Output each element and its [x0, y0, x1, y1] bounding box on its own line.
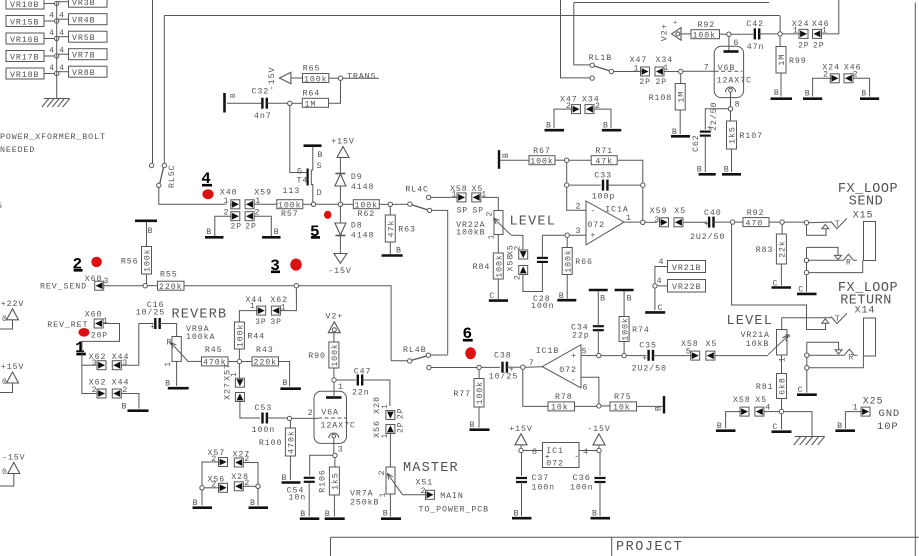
resistor R71	[591, 147, 617, 166]
label X58 p4	[733, 396, 751, 405]
wire X56.2 stub	[204, 487, 218, 489]
junction node V6B plate	[727, 32, 731, 36]
wire junction to ground	[257, 489, 259, 506]
wire R64 to TRANS node	[329, 80, 341, 103]
wire X44.1 to R44	[239, 311, 256, 322]
svg-text:+: +	[545, 453, 551, 462]
svg-text:4: 4	[49, 29, 55, 38]
junction node R77	[477, 365, 481, 369]
resistor R75	[610, 393, 637, 413]
wire node to R62	[343, 203, 353, 205]
wire C38 junction to R78	[523, 369, 548, 406]
svg-text:IC1B: IC1B	[536, 347, 560, 356]
svg-text:3P: 3P	[270, 318, 281, 327]
op-amp IC1A	[576, 201, 632, 245]
wire X5.5 to wiper	[715, 355, 768, 357]
svg-text:REVERB: REVERB	[172, 308, 228, 323]
svg-text:NEEDED: NEEDED	[0, 146, 35, 155]
svg-text:REV_SEND: REV_SEND	[40, 282, 87, 291]
svg-text:C: C	[658, 304, 664, 313]
wire node to RL4B riser	[299, 286, 392, 361]
wire cathode to R107	[730, 111, 732, 121]
svg-text:C: C	[772, 423, 778, 432]
wire VR21A top pin	[781, 318, 783, 330]
wire VR22A pin1 to R84	[497, 235, 499, 254]
wire VR21B pin4	[655, 258, 668, 284]
svg-text:3P: 3P	[255, 318, 266, 327]
svg-text:1: 1	[452, 191, 458, 200]
wire top to RL1B lower	[561, 0, 591, 78]
wire mix node to X62.1	[281, 288, 297, 311]
connector X5 pin3	[674, 207, 686, 227]
junction node R44/R45	[237, 359, 241, 363]
svg-text:VR4B: VR4B	[72, 17, 96, 26]
resistor R90	[308, 342, 340, 378]
ic IC1 power box	[543, 443, 581, 469]
wire junction to R55	[147, 285, 157, 287]
svg-text:10/25: 10/25	[136, 307, 165, 317]
connector X58 pin2	[507, 254, 528, 280]
svg-text:RL4B: RL4B	[403, 346, 427, 355]
connector X44 pin2	[112, 386, 128, 398]
svg-text:2P: 2P	[656, 78, 667, 87]
label 2P X28.1	[397, 408, 406, 419]
svg-text:RL5C: RL5C	[168, 164, 177, 188]
ground B C34	[589, 290, 608, 304]
wire title block divider	[611, 537, 613, 556]
svg-text:B: B	[206, 228, 212, 237]
capacitor C62 polarized	[692, 102, 719, 152]
wire gndbar to C32	[227, 102, 262, 104]
svg-text:V2+: V2+	[325, 313, 343, 322]
svg-text:100p: 100p	[592, 192, 616, 201]
svg-text:2P: 2P	[813, 42, 824, 51]
svg-text:100k: 100k	[278, 200, 302, 210]
svg-text:X58: X58	[733, 396, 751, 405]
svg-text:C: C	[798, 386, 804, 395]
svg-text:0: 0	[2, 315, 8, 324]
svg-text:-15V: -15V	[587, 425, 611, 434]
wire VR16B to junction	[44, 38, 57, 40]
label 10P	[877, 421, 899, 433]
jack tip contact T X14	[831, 313, 847, 324]
svg-text:4: 4	[583, 448, 589, 457]
ground B VR7A	[381, 510, 401, 519]
ground B X28 cluster	[249, 499, 269, 508]
box VR4B	[69, 14, 108, 26]
svg-text:+: +	[150, 323, 156, 332]
svg-text:B: B	[325, 510, 331, 519]
label X57 b	[208, 449, 226, 458]
wire title block top line	[331, 536, 919, 538]
svg-text:R55: R55	[160, 271, 178, 280]
ground C X14	[797, 386, 817, 395]
svg-text:X58: X58	[507, 254, 516, 272]
svg-text:R83: R83	[756, 246, 774, 255]
diode D8	[335, 221, 375, 240]
connector X56 pin2	[211, 481, 227, 493]
svg-text:B: B	[559, 292, 565, 301]
annotation red dot 2	[91, 257, 102, 267]
svg-text:6: 6	[583, 383, 589, 392]
svg-text:-15V: -15V	[2, 454, 26, 463]
wire plus node to IC1A	[569, 234, 586, 236]
label 2P X56.1	[397, 422, 406, 433]
svg-text:8: 8	[735, 101, 741, 110]
power +15V IC1	[509, 425, 533, 445]
resistor R74	[619, 290, 650, 353]
svg-text:12AX7C: 12AX7C	[717, 76, 752, 85]
svg-text:R100: R100	[259, 439, 283, 448]
wire gndbar to R67	[500, 159, 529, 161]
svg-text:-: -	[590, 207, 596, 216]
svg-text:B: B	[837, 422, 843, 431]
svg-text:4: 4	[49, 0, 55, 3]
wire X14 tip wire	[782, 317, 831, 319]
wire sheet border top bus	[164, 15, 780, 17]
wire X34.2 to ground	[594, 109, 611, 128]
svg-text:R92: R92	[747, 209, 765, 218]
label 2P X40	[231, 223, 242, 232]
svg-text:3: 3	[654, 216, 660, 225]
annotation red dot 3	[290, 259, 301, 271]
ground earth X5.4	[794, 437, 825, 446]
svg-text:RL1B: RL1B	[589, 54, 613, 63]
power -15V D8	[328, 254, 352, 277]
svg-text:R44: R44	[247, 333, 265, 342]
svg-text:X27: X27	[223, 382, 233, 400]
label X28 b	[231, 473, 249, 482]
wire V6A plate pin1	[334, 380, 344, 398]
label REV_RET	[47, 321, 88, 330]
power V2+ at R90	[325, 313, 343, 333]
svg-text:22p: 22p	[572, 332, 590, 341]
wire X5.3 to C40	[683, 221, 707, 223]
pin label 4 right row 5	[59, 64, 65, 73]
svg-text:+: +	[642, 355, 648, 364]
wire node to D8	[339, 207, 341, 224]
svg-text:1: 1	[381, 403, 390, 409]
svg-text:470k: 470k	[287, 430, 297, 454]
wire junction to VR4B	[57, 18, 69, 20]
svg-text:+15V: +15V	[1, 363, 25, 372]
capacitor C36	[570, 473, 606, 493]
wire junction to C38	[481, 366, 500, 368]
wire out to X59.3	[645, 221, 657, 223]
svg-text:C47: C47	[354, 368, 372, 377]
svg-text:B: B	[717, 422, 723, 431]
svg-text:R92: R92	[698, 21, 716, 30]
annotation red dot 6	[465, 347, 476, 359]
wire V2+ to R92	[681, 33, 691, 35]
svg-text:100n: 100n	[531, 302, 555, 311]
wire junction to -15V	[598, 445, 600, 448]
resistor R64	[302, 90, 328, 110]
wire VR9A to ground	[176, 361, 178, 386]
ground B C37	[512, 510, 532, 519]
svg-text:X14: X14	[855, 306, 876, 317]
svg-text:B: B	[514, 510, 520, 519]
svg-text:-15V: -15V	[328, 267, 352, 276]
svg-text:VR7B: VR7B	[72, 52, 96, 61]
box VR16B	[6, 33, 44, 45]
svg-text:X15: X15	[853, 211, 874, 222]
wire X15 ring wire	[809, 259, 844, 261]
label 2P X34.1	[656, 78, 667, 87]
wire +15V to junction	[520, 445, 522, 449]
wire X14 bypass from C40 node	[732, 224, 826, 329]
junction node V6B cathode	[728, 101, 740, 111]
label 20P	[91, 332, 108, 341]
wire V6B pin6	[729, 36, 739, 50]
svg-text:B: B	[193, 499, 199, 508]
connector X57 pin1	[223, 363, 245, 387]
svg-text:100k: 100k	[236, 324, 246, 348]
svg-text:1: 1	[230, 371, 239, 377]
junction node TRANS	[338, 76, 342, 80]
wire R92 to junction	[720, 33, 727, 35]
svg-text:B: B	[805, 89, 811, 98]
svg-text:B: B	[282, 474, 288, 483]
jack box X15	[864, 222, 876, 261]
label X44 row2	[112, 378, 130, 387]
wire junction up to bus	[779, 16, 781, 32]
junction node X15 tip	[804, 221, 808, 225]
svg-text:1M: 1M	[677, 91, 686, 103]
capacitor C32	[252, 87, 272, 121]
wire tip to T contact	[809, 221, 831, 224]
svg-text:100k: 100k	[693, 31, 717, 41]
wire C42 to junction	[759, 33, 778, 35]
svg-text:1: 1	[779, 356, 788, 362]
ground B T4 source	[304, 146, 324, 160]
wire C28 node to IC1A plus	[542, 234, 565, 236]
svg-text:2U2/50: 2U2/50	[632, 364, 667, 374]
wire C34 down	[597, 330, 599, 353]
svg-text:100k: 100k	[620, 317, 630, 341]
label MAIN	[440, 492, 464, 501]
power -15V IC1	[587, 425, 611, 445]
svg-text:VR8B: VR8B	[72, 69, 96, 78]
svg-text:B: B	[230, 93, 238, 98]
wire junction to R71	[569, 159, 591, 161]
connector X46 pin2	[844, 63, 862, 83]
svg-text:+15V: +15V	[509, 425, 533, 434]
connector X47 pin1	[630, 56, 650, 76]
wire VR7A to ground	[389, 494, 391, 517]
wire D8 to -15V	[339, 236, 341, 254]
svg-text:X25: X25	[863, 397, 884, 408]
title PROJECT	[616, 540, 683, 555]
svg-text:VR10B: VR10B	[10, 1, 39, 10]
junction node IC1 pin8	[519, 448, 523, 452]
svg-text:4: 4	[59, 47, 65, 56]
wire X62.3 stub	[82, 364, 96, 366]
annotation red dot 4	[202, 189, 213, 199]
connector X28 pin1	[372, 396, 395, 420]
svg-text:B: B	[655, 405, 664, 411]
contact triangle X14 tip	[822, 319, 829, 323]
junction node V6A cathode	[333, 453, 337, 457]
svg-text:SP: SP	[457, 206, 468, 215]
ground C X15	[797, 285, 817, 294]
svg-text:C: C	[773, 280, 779, 289]
svg-text:10k: 10k	[613, 403, 631, 413]
resistor R107	[727, 121, 764, 172]
wire C36 to ground	[599, 482, 601, 516]
svg-text:B: B	[774, 89, 780, 98]
wire C40 to junction	[714, 221, 731, 223]
svg-text:R78: R78	[555, 393, 573, 402]
wire X14 ring rect	[807, 342, 839, 350]
svg-text:1: 1	[481, 191, 487, 200]
svg-text:T: T	[835, 220, 841, 229]
wire junction to VR5B	[57, 36, 69, 38]
junction node fb top	[641, 183, 645, 187]
wire C33 to fb right	[607, 184, 640, 186]
ground B R99	[771, 89, 793, 99]
wire V6A cathode pin3	[334, 438, 344, 455]
connector X59 pin3	[650, 207, 669, 227]
svg-text:B: B	[861, 89, 867, 98]
svg-text:V2+: V2+	[660, 23, 670, 41]
capacitor C35 polarized	[632, 342, 667, 374]
svg-text:4: 4	[657, 277, 663, 286]
wire R65 to TRANS junction	[329, 77, 339, 79]
wire X59.2 to ground	[254, 216, 271, 236]
label X27 b	[233, 450, 251, 459]
wire junction to VR3B	[57, 1, 69, 3]
svg-text:+15V: +15V	[331, 138, 355, 147]
wire junction to X15 node	[784, 221, 804, 223]
ground B X44.2	[122, 403, 149, 412]
svg-text:X60: X60	[85, 275, 103, 284]
svg-text:4: 4	[59, 64, 65, 73]
svg-text:5: 5	[686, 348, 692, 357]
connector X28 pin2	[234, 479, 250, 491]
tube V6B	[704, 46, 752, 97]
svg-text:47k: 47k	[387, 220, 397, 238]
tube V6A	[308, 391, 356, 443]
ground B X58.4	[716, 422, 736, 431]
svg-text:R57: R57	[281, 210, 299, 219]
svg-text:220k: 220k	[254, 358, 278, 368]
wire -15V to R65	[291, 77, 303, 79]
power -15V at R65	[267, 66, 291, 90]
svg-text:0: 0	[2, 378, 8, 387]
svg-text:VR7A: VR7A	[350, 490, 374, 499]
wire X28.2 to junction	[243, 485, 256, 487]
svg-text:MAIN: MAIN	[440, 492, 464, 501]
svg-text:VR21A: VR21A	[741, 331, 770, 340]
ground C VR boxes	[645, 304, 665, 313]
wire R75 to ground	[637, 405, 663, 407]
svg-text:C38: C38	[494, 352, 512, 361]
ground B X56 cluster	[193, 499, 213, 508]
svg-text:1: 1	[487, 234, 496, 240]
ground B X40	[205, 228, 224, 237]
svg-text:VR18B: VR18B	[10, 71, 39, 80]
wire junction to C42	[731, 33, 753, 35]
junction node V6A plate	[332, 378, 336, 382]
junction node R62/R63	[388, 202, 392, 206]
wire VR21A bottom to R81	[779, 355, 788, 374]
label SEND	[849, 195, 883, 210]
svg-text:C53: C53	[255, 404, 273, 413]
connector X5 pin2	[507, 244, 528, 259]
resistor R84	[473, 253, 505, 279]
wire X40.2 to ground	[215, 216, 231, 236]
label FX_LOOP return	[838, 281, 898, 296]
wire junction to V6B grid	[683, 70, 714, 72]
label X25	[863, 397, 884, 408]
svg-text:1k5: 1k5	[728, 126, 738, 144]
wire RL4B lower to IC1B net	[431, 367, 477, 369]
svg-text:R62: R62	[357, 210, 375, 219]
connector X62 pin3	[92, 359, 106, 370]
svg-text:2P: 2P	[245, 223, 256, 232]
ground B X25	[835, 422, 855, 431]
svg-text:GND: GND	[879, 408, 901, 420]
jack ring contact R X15	[844, 254, 857, 267]
svg-text:B: B	[502, 152, 511, 158]
power V2+ top	[660, 20, 682, 42]
wire VR10B to junction	[44, 3, 57, 5]
annotation number 2	[73, 256, 84, 274]
potentiometer VR22A	[486, 211, 512, 240]
wire X14 ring wire	[809, 354, 844, 356]
wire X15 ring rect	[807, 247, 839, 255]
label 250kB	[350, 498, 379, 508]
annotation number 1	[75, 339, 86, 357]
connector X57 pin2	[211, 455, 227, 467]
junction node X15 ring	[804, 258, 808, 262]
wire VR15B to junction	[44, 20, 57, 22]
connector X34 pin2	[582, 96, 601, 114]
resistor R62	[353, 200, 379, 220]
ground B R100	[282, 474, 301, 483]
connector X24 pin1	[792, 20, 810, 38]
svg-text:R99: R99	[789, 57, 807, 66]
svg-text:VR16B: VR16B	[10, 36, 39, 45]
wire VR7A wiper to X51	[403, 494, 426, 496]
svg-text:12AX7C: 12AX7C	[321, 421, 356, 430]
label VR22A	[456, 221, 485, 230]
junction node reverb mix	[294, 284, 298, 288]
potentiometer VR21A	[768, 330, 793, 356]
resistor R92 470	[743, 209, 769, 229]
wire source to channel	[311, 147, 313, 170]
svg-text:B: B	[592, 510, 598, 519]
ground B R108	[671, 128, 690, 137]
connector X27 pin2	[234, 455, 250, 467]
svg-text:R67: R67	[533, 147, 551, 156]
box VR8B	[69, 66, 108, 78]
connector X58 pin4	[740, 407, 749, 416]
label VR7A	[350, 490, 374, 499]
ground B X47.2	[545, 122, 565, 131]
junction node IC1A out	[641, 220, 645, 224]
label 2P X46.1	[813, 42, 824, 51]
wire C53 to junction	[267, 417, 287, 419]
svg-text:100n: 100n	[252, 426, 276, 435]
jack ring contact R X14	[844, 349, 857, 362]
ground C R84	[489, 292, 508, 301]
connector X40 pin1	[220, 189, 240, 209]
svg-text:3: 3	[785, 333, 793, 338]
svg-text:2P: 2P	[639, 78, 650, 87]
connector X5 pin1	[472, 185, 488, 202]
